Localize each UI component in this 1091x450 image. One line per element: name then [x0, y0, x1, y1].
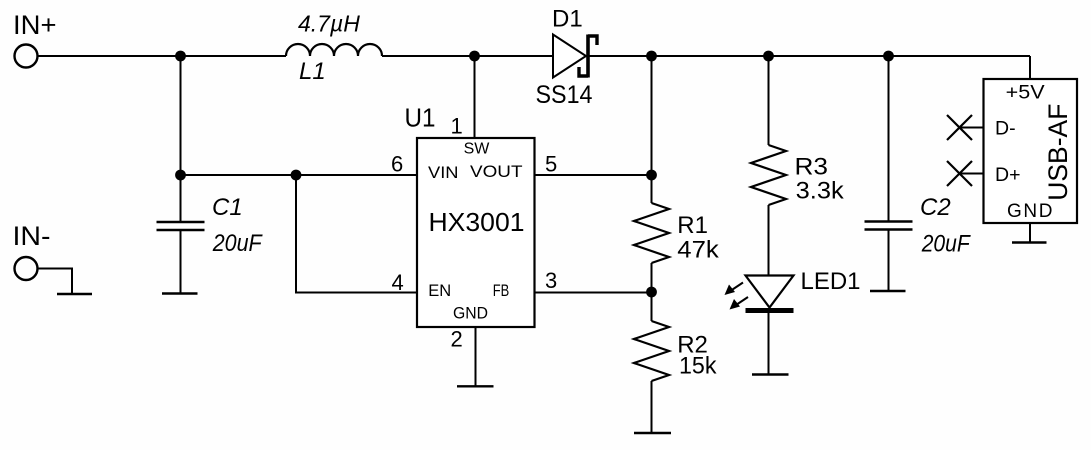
pin D+ stub — [960, 173, 984, 175]
svg-text:VIN: VIN — [428, 163, 459, 182]
svg-text:3.3k: 3.3k — [796, 178, 845, 205]
svg-text:IN+: IN+ — [13, 10, 57, 40]
wire down into USB box — [1029, 56, 1031, 79]
svg-text:15k: 15k — [679, 352, 717, 379]
node VOUT tee — [646, 170, 657, 181]
connector USB-AF — [984, 79, 1078, 223]
svg-text:4: 4 — [392, 270, 404, 295]
pin 1 — [474, 56, 476, 138]
terminal IN- — [15, 257, 38, 280]
svg-text:HX3001: HX3001 — [429, 207, 525, 237]
ground LED — [752, 373, 789, 375]
svg-text:USB-AF: USB-AF — [1043, 104, 1073, 201]
wire EN drop — [296, 175, 417, 293]
svg-text:C1: C1 — [212, 194, 243, 221]
LED light arrow 1 — [725, 283, 744, 296]
capacitor C1 — [157, 194, 263, 293]
LED LED1 — [746, 268, 861, 311]
svg-text:IN-: IN- — [13, 221, 51, 251]
svg-text:D-: D- — [995, 117, 1016, 139]
wire IN- to ground — [38, 269, 72, 294]
pin 5 — [535, 174, 652, 176]
ground IN- — [57, 293, 92, 295]
pin USB GND — [1029, 223, 1031, 242]
node rail-C2 — [883, 51, 894, 62]
ground U1 — [457, 385, 494, 387]
wire R2 to ground — [651, 381, 653, 433]
svg-text:SW: SW — [464, 141, 491, 158]
terminal IN+ — [15, 45, 38, 68]
svg-text:5: 5 — [545, 152, 557, 177]
pin 2 — [475, 327, 477, 386]
pin 3 — [535, 292, 652, 294]
svg-text:R3: R3 — [795, 154, 829, 181]
svg-text:1: 1 — [451, 114, 463, 139]
wire inductor to diode — [382, 55, 553, 57]
no-connect X D+ — [947, 161, 972, 186]
resistor R2 — [634, 321, 717, 381]
node rail-out — [646, 51, 657, 62]
node rail-C1 — [175, 51, 186, 62]
wire R1 to R2 — [651, 263, 653, 321]
svg-text:2: 2 — [451, 326, 463, 351]
resistor R1 — [634, 203, 720, 264]
no-connect X D- — [947, 115, 972, 140]
LED light arrow 2 — [730, 297, 749, 310]
node FB tee — [646, 287, 657, 298]
wire R3 to LED — [768, 205, 770, 276]
wire C1 branch vertical — [180, 56, 182, 222]
svg-text:6: 6 — [391, 152, 403, 177]
svg-text:D1: D1 — [552, 6, 583, 33]
wire out vertical top — [651, 56, 653, 203]
svg-text:GND: GND — [1007, 201, 1053, 222]
svg-text:+5V: +5V — [1006, 82, 1045, 103]
diode D1 SS14 schottky — [536, 6, 598, 110]
capacitor C2 — [865, 56, 971, 291]
svg-text:L1: L1 — [299, 58, 326, 85]
pin D- stub — [960, 127, 984, 129]
svg-text:20uF: 20uF — [212, 230, 263, 257]
IC U1 HX3001 — [405, 103, 535, 328]
svg-text:C2: C2 — [920, 194, 951, 221]
wire LED to ground — [768, 312, 770, 374]
svg-text:LED1: LED1 — [801, 268, 861, 295]
ground USB — [1012, 241, 1047, 243]
svg-text:VOUT: VOUT — [470, 162, 523, 181]
node bus-EN — [291, 170, 302, 181]
svg-text:3: 3 — [545, 268, 557, 293]
wire VIN bus — [181, 174, 418, 176]
resistor R3 — [751, 145, 845, 205]
node rail-R3 — [763, 51, 774, 62]
svg-text:47k: 47k — [677, 237, 720, 264]
node bus-C1 — [175, 170, 186, 181]
svg-text:U1: U1 — [405, 103, 436, 133]
svg-text:EN: EN — [428, 282, 451, 300]
wire diode to USB corner — [588, 55, 1030, 57]
svg-text:R1: R1 — [677, 212, 708, 239]
svg-text:FB: FB — [493, 282, 510, 300]
ground C2 — [870, 290, 906, 292]
svg-text:20uF: 20uF — [921, 231, 971, 258]
ground C1 — [162, 292, 198, 294]
svg-text:SS14: SS14 — [536, 81, 593, 109]
svg-text:GND: GND — [453, 304, 488, 322]
wire R3 branch — [768, 56, 770, 145]
svg-text:4.7µH: 4.7µH — [298, 11, 360, 37]
inductor L1 — [286, 44, 382, 56]
node rail-SW — [469, 51, 480, 62]
svg-text:D+: D+ — [995, 164, 1020, 186]
wire rail IN+ to inductor — [38, 55, 286, 57]
ground R2 — [634, 432, 671, 434]
